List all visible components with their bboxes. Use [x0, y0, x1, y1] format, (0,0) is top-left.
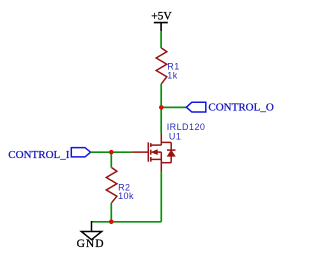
resistor R2: [106, 168, 117, 203]
gate pin: [132, 151, 149, 153]
source vertical: [160, 152, 162, 172]
wire R1 to node: [160, 84, 162, 108]
port CONTROL_O symbol: [186, 102, 205, 112]
drain stub: [151, 144, 162, 146]
svg-text:CONTROL_O: CONTROL_O: [208, 102, 273, 114]
wire +5V to R1: [160, 31, 162, 48]
body diode cathode bar: [167, 149, 176, 151]
port CONTROL_I symbol: [71, 148, 90, 157]
power port +5V bar symbol: [154, 23, 168, 32]
resistor R1: [156, 48, 167, 84]
channel segment middle: [150, 150, 152, 155]
channel segment top: [150, 143, 152, 147]
wire CONTROL_I to gate: [91, 151, 132, 153]
wire node to R2: [110, 152, 112, 167]
svg-text:+5V: +5V: [151, 11, 172, 23]
body diode top branch: [161, 141, 171, 143]
wire bottom horizontal: [91, 221, 161, 223]
wire source down: [160, 172, 162, 222]
gate arrow: [152, 150, 158, 155]
wire node to drain: [160, 107, 162, 132]
transistor Q/U1 MOSFET IRLD120: [132, 133, 176, 173]
ground symbol: [81, 221, 101, 240]
svg-text:1k: 1k: [167, 70, 177, 80]
channel segment bottom: [150, 157, 152, 162]
svg-text:GND: GND: [77, 238, 105, 250]
wire R2 to bottom node: [110, 203, 112, 222]
junction node bottom / R2: [109, 220, 114, 225]
body diode bottom branch: [161, 162, 171, 164]
body diode vertical: [170, 142, 172, 150]
gate plate: [147, 142, 149, 161]
svg-text:10k: 10k: [118, 191, 134, 201]
bulk stub: [151, 158, 162, 160]
svg-text:U1: U1: [169, 132, 181, 142]
svg-text:CONTROL_I: CONTROL_I: [8, 149, 69, 161]
junction node CONTROL_I / R2: [109, 150, 114, 155]
wire node to CONTROL_O port: [161, 106, 186, 108]
junction node CONTROL_O: [159, 105, 164, 110]
source arrow stub: [157, 151, 161, 153]
body diode triangle: [167, 150, 175, 156]
drain pin: [160, 133, 162, 145]
